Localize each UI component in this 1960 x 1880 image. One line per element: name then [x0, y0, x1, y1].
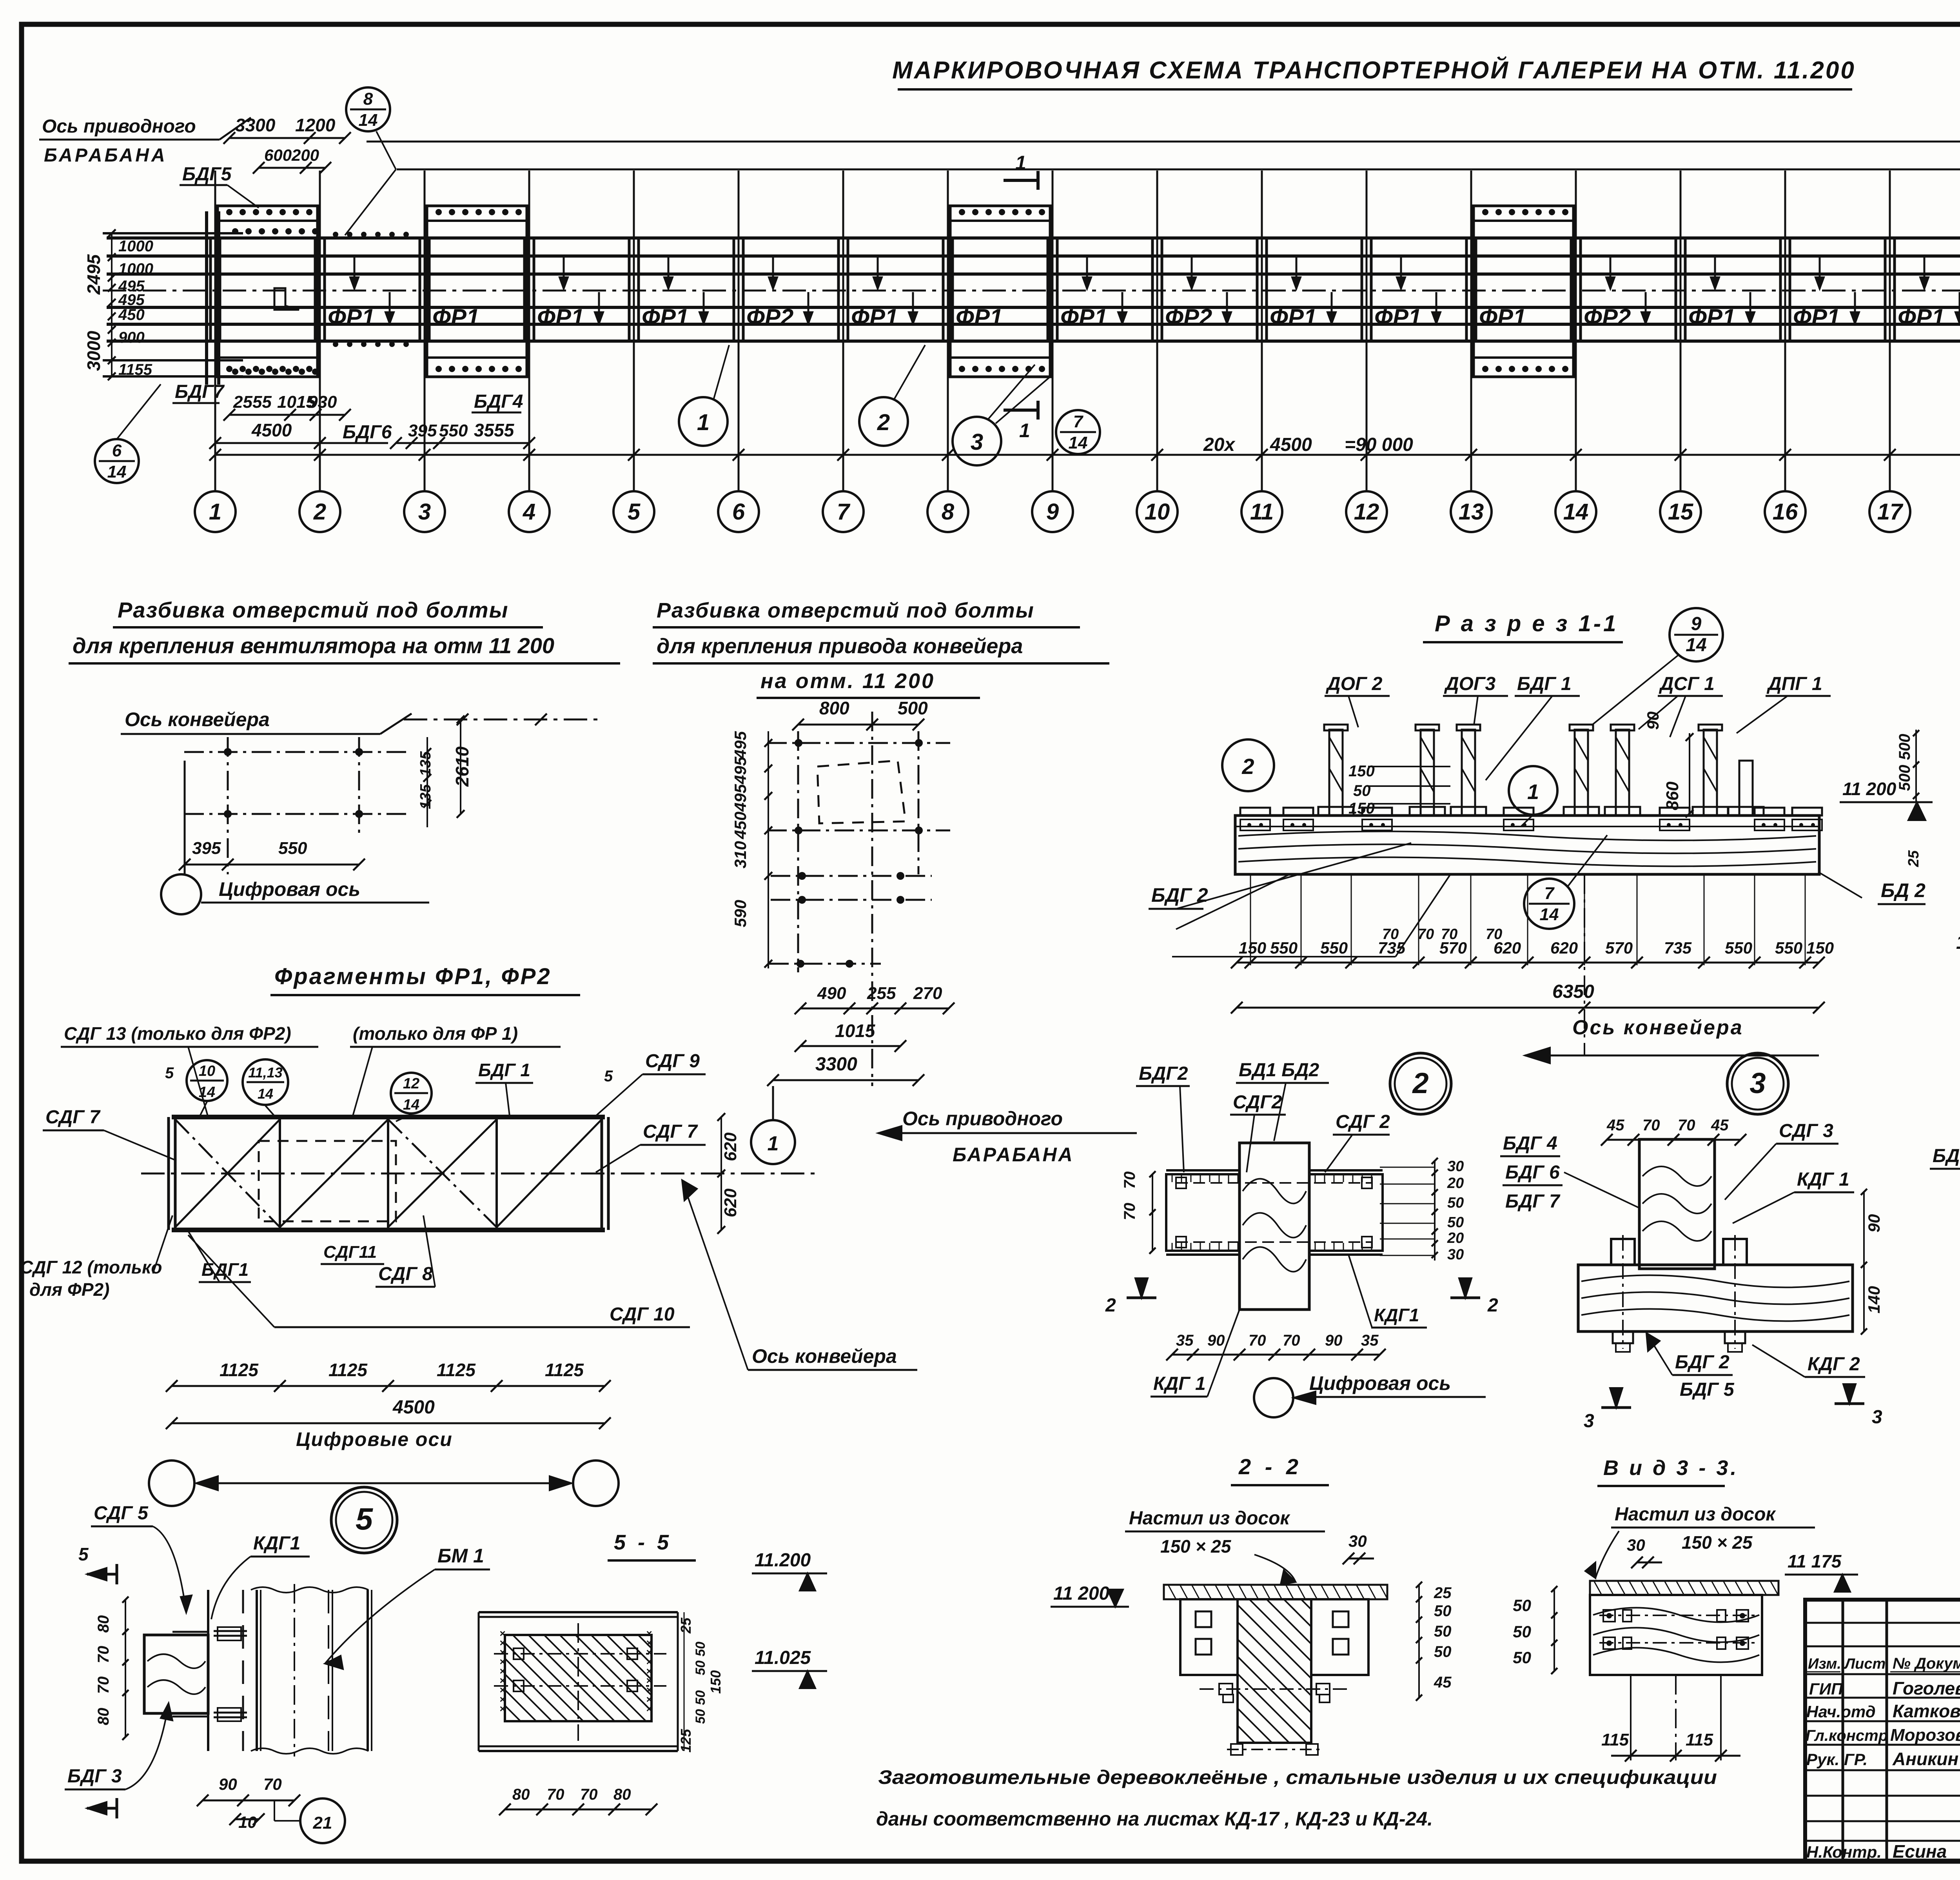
svg-text:570: 570	[1439, 939, 1467, 957]
svg-text:450: 450	[731, 812, 750, 839]
svg-text:ФР1: ФР1	[432, 304, 479, 331]
svg-text:70: 70	[1249, 1332, 1266, 1349]
svg-text:50: 50	[1447, 1214, 1464, 1231]
svg-text:ФР2: ФР2	[1584, 304, 1631, 331]
svg-text:В и д 3 - 3.: В и д 3 - 3.	[1603, 1456, 1739, 1480]
svg-text:ФР1: ФР1	[1479, 304, 1526, 331]
svg-text:1125: 1125	[437, 1360, 476, 1380]
svg-text:ФР2: ФР2	[746, 304, 793, 331]
svg-text:14: 14	[359, 111, 378, 130]
svg-text:90: 90	[1644, 712, 1662, 730]
svg-text:Есина: Есина	[1893, 1841, 1947, 1862]
svg-text:для ФР2): для ФР2)	[29, 1279, 109, 1300]
svg-text:Катков: Катков	[1893, 1701, 1960, 1721]
svg-text:80: 80	[613, 1786, 631, 1803]
svg-text:1: 1	[1956, 931, 1960, 953]
svg-text:14: 14	[1069, 433, 1088, 452]
svg-text:2 - 2: 2 - 2	[1238, 1454, 1302, 1479]
svg-text:735: 735	[1664, 939, 1692, 957]
svg-text:550: 550	[1725, 939, 1752, 957]
svg-text:11.025: 11.025	[755, 1647, 811, 1668]
svg-text:Изм.: Изм.	[1808, 1656, 1841, 1672]
svg-text:8: 8	[363, 89, 373, 109]
svg-text:2: 2	[1412, 1067, 1428, 1099]
svg-text:×: ×	[646, 1703, 652, 1715]
svg-text:620: 620	[721, 1188, 740, 1217]
svg-text:930: 930	[308, 392, 337, 412]
svg-text:3000: 3000	[83, 331, 104, 371]
svg-text:ФР1: ФР1	[1060, 304, 1107, 331]
svg-text:860: 860	[1663, 781, 1682, 810]
svg-text:КДГ1: КДГ1	[253, 1533, 300, 1554]
svg-text:1: 1	[768, 1132, 779, 1155]
svg-text:500: 500	[1896, 734, 1913, 760]
svg-text:70: 70	[95, 1677, 112, 1694]
svg-text:70: 70	[1678, 1117, 1695, 1134]
svg-text:ДСГ 1: ДСГ 1	[1659, 674, 1715, 694]
svg-text:13: 13	[1459, 499, 1484, 525]
svg-text:50: 50	[1513, 1596, 1531, 1615]
svg-text:Аникин: Аникин	[1892, 1749, 1958, 1769]
svg-text:БДГ 4: БДГ 4	[1503, 1133, 1557, 1154]
svg-text:2: 2	[313, 499, 326, 525]
svg-text:Лист: Лист	[1844, 1656, 1886, 1672]
svg-text:25: 25	[1434, 1584, 1452, 1602]
svg-text:90: 90	[1207, 1332, 1225, 1349]
svg-text:ФР2: ФР2	[1165, 304, 1212, 331]
svg-text:450: 450	[118, 306, 145, 323]
svg-text:1000: 1000	[118, 260, 153, 278]
svg-text:Ось конвейера: Ось конвейера	[125, 708, 270, 730]
svg-text:Разбивка отверстий под болты: Разбивка отверстий под болты	[657, 599, 1034, 622]
svg-text:150 × 25: 150 × 25	[1682, 1532, 1753, 1553]
svg-text:620: 620	[1550, 939, 1578, 957]
svg-text:550: 550	[1775, 939, 1802, 957]
svg-text:11 200: 11 200	[1842, 779, 1896, 799]
svg-text:БАРАБАНА: БАРАБАНА	[44, 145, 167, 166]
svg-text:ФР1: ФР1	[1270, 304, 1317, 331]
svg-text:11 200: 11 200	[1053, 1583, 1110, 1604]
svg-text:СДГ 9: СДГ 9	[645, 1051, 700, 1072]
svg-text:Рук. ГР.: Рук. ГР.	[1806, 1750, 1867, 1769]
svg-text:5: 5	[165, 1064, 174, 1082]
svg-text:50: 50	[693, 1642, 708, 1657]
svg-text:БДГ1: БДГ1	[201, 1259, 249, 1280]
svg-text:3: 3	[418, 499, 431, 525]
svg-text:6350: 6350	[1552, 981, 1594, 1002]
svg-text:70: 70	[1417, 926, 1434, 943]
svg-text:даны соответственно на листа: даны соответственно на листах КД-17 , КД…	[876, 1808, 1433, 1830]
svg-text:БДГ 2: БДГ 2	[1675, 1352, 1730, 1373]
svg-text:ДОГ 2: ДОГ 2	[1325, 674, 1383, 694]
svg-text:БДГ 1: БДГ 1	[478, 1060, 530, 1080]
svg-text:50: 50	[693, 1690, 708, 1705]
svg-text:735: 735	[1378, 939, 1406, 957]
svg-text:12: 12	[1354, 499, 1379, 525]
svg-text:5: 5	[628, 499, 641, 525]
svg-text:3: 3	[1584, 1411, 1594, 1431]
svg-text:БДГ2: БДГ2	[1139, 1063, 1188, 1084]
svg-text:90: 90	[219, 1775, 237, 1793]
svg-text:800: 800	[819, 698, 849, 718]
svg-text:2495: 2495	[83, 254, 104, 295]
svg-text:15: 15	[1668, 499, 1693, 525]
svg-text:4500: 4500	[251, 420, 292, 440]
svg-text:КДГ 1: КДГ 1	[1797, 1169, 1849, 1190]
svg-text:140: 140	[1865, 1286, 1883, 1313]
svg-text:ДПГ 1: ДПГ 1	[1766, 674, 1822, 694]
svg-text:ДОГ3: ДОГ3	[1444, 674, 1495, 694]
svg-text:1: 1	[1015, 152, 1026, 174]
svg-text:45: 45	[1434, 1674, 1452, 1691]
svg-text:ФР1: ФР1	[1898, 304, 1945, 331]
svg-text:СДГ 7: СДГ 7	[643, 1121, 698, 1142]
svg-text:70: 70	[580, 1786, 598, 1803]
svg-text:395: 395	[408, 421, 437, 440]
svg-text:550: 550	[1320, 939, 1348, 957]
svg-text:20: 20	[1447, 1230, 1464, 1246]
svg-text:45: 45	[1606, 1117, 1624, 1134]
svg-text:12: 12	[403, 1075, 419, 1092]
svg-text:БДГ7: БДГ7	[175, 381, 225, 402]
svg-text:11: 11	[1250, 499, 1274, 525]
svg-text:17: 17	[1877, 499, 1904, 525]
svg-text:СДГ 8: СДГ 8	[378, 1264, 433, 1284]
svg-text:570: 570	[1605, 939, 1633, 957]
svg-text:1000: 1000	[118, 238, 153, 255]
svg-text:495: 495	[731, 731, 750, 759]
svg-text:1: 1	[1019, 420, 1030, 441]
svg-text:270: 270	[913, 984, 942, 1003]
svg-text:2: 2	[1241, 754, 1254, 779]
svg-text:2610: 2610	[452, 746, 472, 787]
svg-text:КДГ 1: КДГ 1	[1153, 1373, 1206, 1394]
svg-text:150: 150	[708, 1670, 724, 1694]
svg-text:Цифровая ось: Цифровая ось	[1309, 1372, 1451, 1394]
svg-text:Н.Контр.: Н.Контр.	[1806, 1843, 1882, 1861]
svg-text:14: 14	[199, 1084, 215, 1101]
svg-text:СДГ2: СДГ2	[1233, 1092, 1282, 1113]
svg-text:Цифровые оси: Цифровые оси	[296, 1428, 453, 1450]
svg-text:115: 115	[1686, 1730, 1713, 1749]
svg-text:8: 8	[942, 499, 955, 525]
svg-text:30: 30	[1627, 1536, 1645, 1554]
svg-text:БМ 1: БМ 1	[437, 1545, 484, 1567]
svg-text:БД1 БД2: БД1 БД2	[1239, 1060, 1319, 1081]
svg-text:30: 30	[1447, 1246, 1464, 1263]
svg-text:70: 70	[547, 1786, 564, 1803]
svg-text:для крепления привода конвейер: для крепления привода конвейера	[657, 634, 1023, 658]
svg-text:Нач.отд: Нач.отд	[1806, 1702, 1876, 1721]
svg-text:3300: 3300	[235, 115, 276, 135]
svg-text:2555: 2555	[233, 392, 272, 412]
svg-text:Разбивка отверстий под болты: Разбивка отверстий под болты	[118, 598, 508, 622]
svg-text:БДГ 1: БДГ 1	[1517, 674, 1572, 694]
svg-text:11,13: 11,13	[248, 1064, 282, 1081]
svg-text:25: 25	[1906, 850, 1922, 867]
svg-text:550: 550	[278, 839, 307, 858]
svg-text:ФР1: ФР1	[851, 304, 898, 331]
svg-text:11.200: 11.200	[755, 1550, 811, 1571]
svg-text:Гл.констр: Гл.констр	[1806, 1727, 1888, 1744]
svg-text:50: 50	[693, 1660, 708, 1675]
svg-text:СДГ 5: СДГ 5	[94, 1503, 149, 1524]
svg-text:70: 70	[1642, 1117, 1660, 1134]
svg-text:ФР1: ФР1	[1793, 304, 1840, 331]
svg-text:50: 50	[693, 1709, 708, 1724]
svg-text:30: 30	[1348, 1532, 1367, 1550]
svg-text:310: 310	[731, 841, 750, 868]
svg-text:6: 6	[732, 499, 745, 525]
svg-text:СДГ 13 (только для ФР2): СДГ 13 (только для ФР2)	[64, 1023, 291, 1044]
svg-text:70: 70	[1121, 1203, 1138, 1221]
svg-text:БДГ 3: БДГ 3	[67, 1766, 122, 1787]
svg-text:3300: 3300	[815, 1054, 857, 1075]
svg-text:1: 1	[1527, 780, 1539, 804]
svg-text:БАРАБАНА: БАРАБАНА	[953, 1144, 1074, 1166]
svg-text:Гоголев: Гоголев	[1893, 1678, 1960, 1698]
svg-text:×: ×	[499, 1703, 505, 1715]
svg-text:4500: 4500	[392, 1397, 435, 1418]
svg-text:150: 150	[1348, 763, 1375, 780]
svg-text:=90 000: =90 000	[1345, 434, 1413, 455]
svg-text:9: 9	[1046, 499, 1059, 525]
svg-text:СДГ 3: СДГ 3	[1779, 1121, 1833, 1141]
svg-text:255: 255	[867, 984, 896, 1003]
svg-text:80: 80	[95, 1615, 112, 1633]
svg-text:5: 5	[604, 1068, 613, 1085]
svg-text:115: 115	[1601, 1730, 1629, 1749]
svg-text:900: 900	[118, 329, 145, 346]
svg-text:11 175: 11 175	[1788, 1551, 1842, 1571]
svg-text:20: 20	[1447, 1175, 1464, 1192]
svg-text:МАРКИРОВОЧНАЯ СХЕМА ТРАНСП: МАРКИРОВОЧНАЯ СХЕМА ТРАНСПОРТЕРНОЙ ГАЛЕР…	[892, 56, 1856, 84]
svg-text:ФР1: ФР1	[328, 304, 375, 331]
svg-text:16: 16	[1773, 499, 1798, 525]
svg-text:70: 70	[1121, 1172, 1138, 1189]
svg-text:5: 5	[356, 1501, 373, 1536]
svg-text:Настил из досок: Настил из досок	[1615, 1504, 1776, 1525]
svg-text:90: 90	[1325, 1332, 1343, 1349]
svg-text:500: 500	[1896, 765, 1913, 791]
svg-text:КДГ1: КДГ1	[1374, 1305, 1419, 1325]
svg-text:Ось приводного: Ось приводного	[42, 116, 196, 137]
svg-text:1015: 1015	[835, 1021, 876, 1041]
svg-text:50: 50	[1434, 1623, 1452, 1640]
svg-text:БДГ 5: БДГ 5	[1680, 1379, 1735, 1400]
svg-text:ФР1: ФР1	[537, 304, 584, 331]
svg-text:БДГ5: БДГ5	[182, 164, 232, 185]
svg-text:1: 1	[209, 499, 221, 525]
svg-text:1: 1	[697, 410, 710, 435]
svg-text:80: 80	[95, 1708, 112, 1726]
svg-text:620: 620	[1494, 939, 1521, 957]
svg-text:ФР1: ФР1	[1688, 304, 1735, 331]
svg-text:Ось конвейера: Ось конвейера	[1572, 1016, 1744, 1039]
svg-text:№ Докум.: № Докум.	[1893, 1655, 1960, 1672]
svg-text:2: 2	[1105, 1295, 1116, 1316]
svg-text:4500: 4500	[1270, 434, 1312, 455]
svg-text:80: 80	[512, 1786, 530, 1803]
svg-text:7: 7	[1544, 884, 1555, 903]
svg-text:50: 50	[1434, 1602, 1452, 1620]
svg-text:СДГ 2: СДГ 2	[1336, 1112, 1390, 1132]
svg-text:Настил из досок: Настил из досок	[1129, 1508, 1290, 1529]
svg-text:150: 150	[1348, 800, 1375, 817]
svg-text:495: 495	[731, 784, 750, 812]
svg-text:на отм. 11 200: на отм. 11 200	[760, 669, 935, 693]
svg-text:600: 600	[264, 146, 292, 164]
svg-text:БДГ 1: БДГ 1	[1933, 1146, 1960, 1166]
svg-text:5 - 5: 5 - 5	[614, 1531, 672, 1554]
svg-text:БД 2: БД 2	[1881, 879, 1926, 901]
svg-text:Р а з р е з 1-1: Р а з р е з 1-1	[1435, 611, 1618, 636]
svg-text:10: 10	[1145, 499, 1170, 525]
svg-text:ГИП: ГИП	[1809, 1680, 1843, 1698]
svg-text:495: 495	[731, 756, 750, 785]
svg-text:150 × 25: 150 × 25	[1160, 1536, 1232, 1557]
svg-text:Ось конвейера: Ось конвейера	[752, 1345, 897, 1367]
svg-text:50: 50	[1513, 1648, 1531, 1667]
svg-text:14: 14	[1563, 499, 1589, 525]
svg-text:(только для ФР 1): (только для ФР 1)	[353, 1023, 518, 1044]
svg-text:620: 620	[721, 1132, 740, 1161]
svg-text:50: 50	[1434, 1643, 1452, 1660]
svg-text:3555: 3555	[474, 420, 515, 440]
svg-text:14: 14	[403, 1097, 419, 1113]
svg-text:90: 90	[1865, 1214, 1883, 1233]
svg-text:3: 3	[971, 429, 983, 455]
svg-text:14: 14	[107, 462, 127, 481]
svg-text:70: 70	[1283, 1332, 1300, 1349]
svg-text:50: 50	[1353, 782, 1371, 799]
svg-text:500: 500	[898, 698, 928, 718]
svg-text:14: 14	[258, 1086, 273, 1102]
svg-text:1125: 1125	[220, 1360, 259, 1380]
svg-text:490: 490	[817, 984, 846, 1003]
svg-text:БДГ 7: БДГ 7	[1505, 1191, 1561, 1212]
svg-text:14: 14	[1540, 905, 1559, 924]
svg-text:21: 21	[313, 1813, 332, 1833]
svg-text:ФР1: ФР1	[642, 304, 689, 331]
svg-text:150: 150	[1239, 939, 1266, 957]
svg-text:5: 5	[78, 1544, 89, 1564]
svg-text:СДГ 7: СДГ 7	[45, 1107, 101, 1128]
svg-text:СДГ11: СДГ11	[323, 1242, 377, 1262]
svg-text:СДГ 12 (только: СДГ 12 (только	[20, 1257, 162, 1277]
svg-text:ФР1: ФР1	[956, 304, 1003, 331]
svg-text:7: 7	[837, 499, 851, 525]
svg-text:1125: 1125	[545, 1360, 584, 1380]
svg-text:50: 50	[1447, 1195, 1464, 1211]
svg-text:1125: 1125	[328, 1360, 368, 1380]
svg-text:70: 70	[263, 1775, 282, 1793]
svg-text:ФР1: ФР1	[1374, 304, 1421, 331]
svg-text:50: 50	[1513, 1622, 1531, 1641]
svg-text:6: 6	[112, 441, 122, 460]
svg-text:395: 395	[192, 839, 221, 858]
svg-text:БДГ4: БДГ4	[474, 391, 523, 412]
svg-text:20х: 20х	[1203, 434, 1236, 455]
svg-text:200: 200	[291, 146, 319, 164]
svg-text:30: 30	[1447, 1158, 1464, 1175]
svg-text:Заготовительные деревоклеёные: Заготовительные деревоклеёные , стальные…	[878, 1766, 1717, 1788]
svg-text:СДГ 10: СДГ 10	[610, 1304, 675, 1325]
svg-text:70: 70	[95, 1646, 112, 1664]
svg-text:35: 35	[1361, 1332, 1379, 1349]
svg-text:10: 10	[199, 1063, 215, 1079]
svg-text:25: 25	[678, 1617, 694, 1634]
svg-text:3: 3	[1749, 1067, 1766, 1099]
svg-text:590: 590	[731, 900, 750, 927]
svg-text:БДГ6: БДГ6	[343, 422, 392, 443]
svg-text:Цифровая ось: Цифровая ось	[219, 878, 360, 900]
svg-text:2: 2	[877, 410, 890, 435]
svg-text:2: 2	[1487, 1295, 1498, 1316]
svg-text:150: 150	[1806, 939, 1834, 957]
svg-text:4: 4	[523, 499, 535, 525]
svg-text:БДГ 6: БДГ 6	[1505, 1162, 1560, 1183]
svg-text:35: 35	[1176, 1332, 1194, 1349]
svg-text:10: 10	[238, 1813, 257, 1831]
svg-text:1155: 1155	[118, 361, 152, 378]
svg-text:7: 7	[1073, 412, 1084, 431]
svg-text:14: 14	[1686, 635, 1706, 656]
svg-text:3: 3	[1872, 1407, 1882, 1428]
svg-text:Фрагменты ФР1, ФР2: Фрагменты ФР1, ФР2	[274, 964, 552, 989]
svg-text:550: 550	[1270, 939, 1298, 957]
svg-text:9: 9	[1691, 614, 1702, 634]
svg-text:для крепления вентилятора на о: для крепления вентилятора на отм 11 200	[73, 633, 554, 658]
svg-text:КДГ 2: КДГ 2	[1808, 1354, 1860, 1375]
svg-text:Ось приводного: Ось приводного	[902, 1108, 1063, 1130]
svg-text:45: 45	[1711, 1117, 1729, 1134]
svg-text:Морозова: Морозова	[1890, 1726, 1960, 1745]
svg-text:125: 125	[678, 1729, 694, 1753]
